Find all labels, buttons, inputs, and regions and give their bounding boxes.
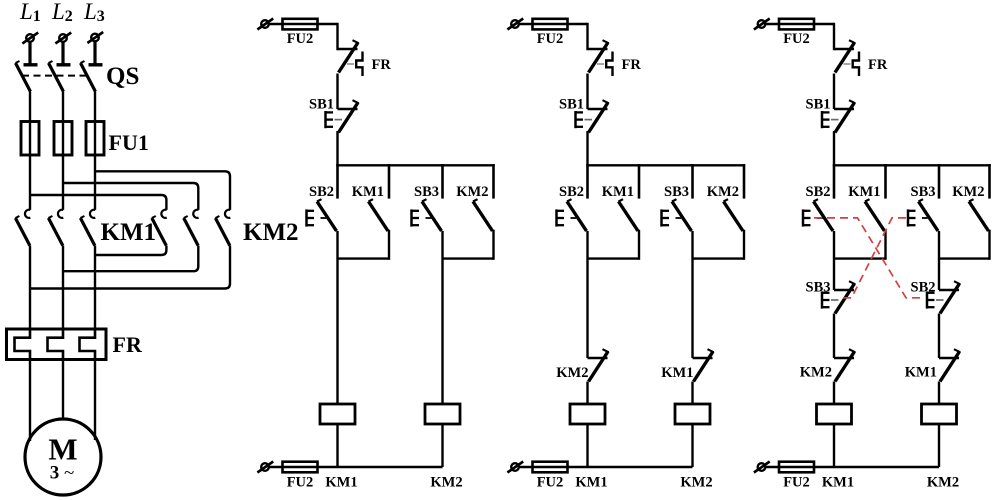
circuit3 label FU2 bottom xyxy=(783,474,810,490)
circuit3 label KM1 interlock xyxy=(905,365,937,381)
circuit2 fuse FU2 bottom xyxy=(533,462,568,473)
svg-text:KM1: KM1 xyxy=(848,184,880,200)
circuit2 contact KM2 aux (NO) xyxy=(724,199,744,231)
mechanical interlock link SB2 (red dashed) xyxy=(814,218,921,298)
circuit3 FR operator dashed link xyxy=(844,63,851,65)
circuit2 label KM1 interlock xyxy=(661,365,693,381)
svg-text:KM1: KM1 xyxy=(905,365,937,381)
circuit2 label FU2 top xyxy=(537,31,564,47)
circuit1 FR trip operator xyxy=(356,52,362,77)
circuit3 button contact SB3 (NC) xyxy=(834,281,855,313)
circuit3 fuse FU2 bottom xyxy=(779,462,814,473)
svg-text:SB3: SB3 xyxy=(911,184,936,200)
switch QS pole 3 fixed bar xyxy=(89,63,103,66)
wire phase 2 column to KM1 xyxy=(62,155,64,210)
wire QS to FU1 phase 3 xyxy=(94,92,96,122)
svg-text:KM2: KM2 xyxy=(243,219,299,246)
switch QS pole 2 blade xyxy=(49,61,64,92)
contactor KM1 main contact 3 terminal hook xyxy=(90,210,95,218)
thermal relay FR box xyxy=(7,329,107,360)
contactor KM2 main contact 2 terminal hook xyxy=(193,210,198,218)
circuit1 label coil KM2 xyxy=(430,474,462,490)
fuse FU1 phase 3 xyxy=(86,122,104,156)
switch QS linkage dashed line xyxy=(22,75,89,77)
circuit1 contact KM2 aux (NO) xyxy=(473,199,493,231)
contactor KM1 main contact 1 blade xyxy=(15,216,29,246)
circuit3 SB1 actuator dashed link xyxy=(831,119,839,121)
wire KM2 out 1 swap to phase 3 xyxy=(95,246,166,256)
circuit1 wire branch2 to coil xyxy=(441,231,443,404)
circuit3 SB2 actuator dashed link xyxy=(817,217,823,219)
circuit2 wire branch2 to KM1 interlock xyxy=(691,231,693,358)
circuit1 coil KM2 xyxy=(425,404,460,424)
terminal label L2 xyxy=(51,0,73,25)
wire L1 to QS xyxy=(28,43,31,65)
svg-text:FR: FR xyxy=(868,57,888,73)
circuit1 wire join KM2 aux xyxy=(443,257,494,259)
circuit2 start button SB3 (NO) xyxy=(672,199,692,231)
circuit2 label FU2 bottom xyxy=(537,474,564,490)
svg-text:KM1: KM1 xyxy=(325,474,357,490)
terminal L3 xyxy=(87,32,103,43)
svg-text:FU2: FU2 xyxy=(783,474,810,490)
circuit3 wire KM1 aux drop xyxy=(884,231,886,259)
label M xyxy=(48,432,77,467)
circuit3 wire join KM1 aux xyxy=(834,257,886,259)
circuit1 label FR xyxy=(372,57,392,73)
wire KM2 out 2 to phase 2 xyxy=(63,246,198,272)
wire KM1 out phase 1 xyxy=(29,246,31,330)
circuit3 contact KM1 aux (NO) xyxy=(865,199,885,231)
circuit1 label FU2 bottom xyxy=(287,474,314,490)
circuit1 wire coil KM1 to bottom bus xyxy=(336,424,338,467)
circuit2 wire down to FR contact xyxy=(586,24,588,49)
svg-text:KM1: KM1 xyxy=(101,219,157,246)
circuit1 stop button SB1 (NC) xyxy=(338,100,359,132)
circuit2 SB3 actuator dashed link xyxy=(676,217,682,219)
circuit3 label FU2 top xyxy=(783,31,810,47)
wire through fuse FU1-1 xyxy=(29,122,31,156)
circuit3 coil KM1 xyxy=(817,404,852,424)
circuit3 label KM2 interlock xyxy=(800,365,832,381)
circuit1 horizontal bus xyxy=(338,164,494,166)
circuit2 SB2 actuator xyxy=(557,209,565,226)
circuit3 source terminal bottom xyxy=(754,462,770,473)
circuit1 label FU2 top xyxy=(287,31,314,47)
circuit2 label coil KM2 xyxy=(680,474,712,490)
circuit2 SB1 actuator dashed link xyxy=(585,119,593,121)
circuit1 wire terminal to fuse FU2 top xyxy=(270,23,338,25)
circuit3 thermal contact FR (NC) xyxy=(834,40,855,72)
motor M circle xyxy=(25,419,101,495)
circuit2 interlock contact KM2 (NC) xyxy=(588,349,609,381)
fuse FU1 phase 1 xyxy=(21,122,39,156)
circuit3 SB1 actuator xyxy=(822,111,830,128)
svg-text:KM1: KM1 xyxy=(602,184,634,200)
circuit1 source terminal top xyxy=(257,19,273,30)
circuit2 interlock contact KM1 (NC) xyxy=(693,349,714,381)
circuit1 label SB2 xyxy=(309,184,334,200)
circuit3 interlock contact KM2 (NC) xyxy=(834,349,855,381)
circuit3 stub to contact SB2 xyxy=(833,165,836,197)
circuit2 label SB3 xyxy=(664,184,689,200)
label QS xyxy=(106,63,139,90)
circuit1 SB1 actuator dashed link xyxy=(335,119,343,121)
circuit2 label FR xyxy=(622,57,642,73)
circuit2 wire to coil KM2 xyxy=(691,382,693,405)
circuit3 button contact SB2 (NC) xyxy=(939,281,960,313)
circuit3 coil KM2 xyxy=(922,404,957,424)
circuit1 start button SB3 (NO) xyxy=(422,199,442,231)
circuit3 stop button SB1 (NC) xyxy=(834,100,855,132)
circuit3 SB3 NC actuator xyxy=(822,291,830,308)
circuit3 label SB1 xyxy=(806,97,831,113)
svg-text:FR: FR xyxy=(622,57,642,73)
circuit2 label coil KM1 xyxy=(575,474,607,490)
mechanical interlock link SB3 (red dashed) xyxy=(840,218,906,298)
wire KM2 out 3 swap to phase 1 xyxy=(30,246,230,289)
circuit1 label SB1 xyxy=(309,97,334,113)
svg-text:KM2: KM2 xyxy=(952,184,984,200)
circuit1 wire KM2 aux drop xyxy=(492,231,494,259)
circuit2 label SB2 xyxy=(559,184,584,200)
circuit2 contact KM1 aux (NO) xyxy=(619,199,639,231)
circuit2 wire join KM2 aux xyxy=(693,257,745,259)
circuit1 stub to contact SB2 xyxy=(336,165,339,197)
svg-text:KM2: KM2 xyxy=(680,474,712,490)
svg-text:KM2: KM2 xyxy=(800,365,832,381)
label KM1 xyxy=(101,219,157,246)
svg-text:KM2: KM2 xyxy=(707,184,739,200)
wire phase 1 column to KM1 xyxy=(29,155,31,210)
circuit3 wire terminal to fuse FU2 top xyxy=(766,23,834,25)
circuit3 start button SB3 (NO) xyxy=(919,199,939,231)
contactor KM1 main contact 1 terminal hook xyxy=(25,210,30,218)
circuit3 wire SB3 NC to KM2 interlock xyxy=(833,314,835,359)
circuit1 label coil KM1 xyxy=(325,474,357,490)
circuit1 SB2 actuator dashed link xyxy=(321,217,327,219)
wire branch phase 2 to KM2 xyxy=(63,183,198,210)
circuit3 SB3 NC actuator dashed link xyxy=(831,299,839,301)
svg-text:SB2: SB2 xyxy=(309,184,334,200)
circuit2 wire SB1 to bus xyxy=(586,131,588,165)
wire KM1 out phase 3 xyxy=(94,246,96,330)
circuit3 label coil KM2 xyxy=(927,474,959,490)
fuse FU1 phase 2 xyxy=(54,122,72,156)
wire branch phase 1 to KM2 xyxy=(30,195,166,210)
circuit3 label SB3 NC xyxy=(806,280,831,296)
circuit3 SB3 actuator dashed link xyxy=(922,217,928,219)
circuit3 wire bottom to fuse xyxy=(766,466,834,468)
circuit3 label SB2 xyxy=(806,184,831,200)
wire through fuse FU1-3 xyxy=(94,122,96,156)
svg-text:FU2: FU2 xyxy=(287,474,314,490)
circuit1 wire coil KM2 to bottom bus xyxy=(441,424,443,467)
circuit3 contact KM2 aux (NO) xyxy=(969,199,989,231)
terminal label L3 xyxy=(83,0,105,25)
circuit1 start button SB2 (NO) xyxy=(317,199,337,231)
svg-text:FU2: FU2 xyxy=(537,31,564,47)
label FU1 xyxy=(109,130,149,155)
svg-text:KM2: KM2 xyxy=(430,474,462,490)
circuit2 stub to contact SB3 xyxy=(691,165,694,197)
circuit2 label SB1 xyxy=(559,97,584,113)
circuit3 horizontal bus xyxy=(834,164,990,166)
circuit1 wire branch1 to coil xyxy=(336,231,338,404)
svg-text:3 ~: 3 ~ xyxy=(50,463,75,484)
contactor KM2 main contact 1 terminal hook xyxy=(161,210,166,218)
circuit1 SB3 actuator xyxy=(412,209,420,226)
circuit2 bottom bus xyxy=(588,466,693,468)
svg-text:SB2: SB2 xyxy=(559,184,584,200)
svg-text:FU2: FU2 xyxy=(537,474,564,490)
wire KM1 out phase 2 xyxy=(62,246,64,330)
svg-text:KM1: KM1 xyxy=(661,365,693,381)
circuit3 source terminal top xyxy=(754,19,770,30)
circuit3 SB2 NC actuator xyxy=(927,291,935,308)
circuit1 wire join KM1 aux xyxy=(338,257,390,259)
circuit2 FR operator dashed link xyxy=(597,63,604,65)
circuit1 stub to contact SB3 xyxy=(441,165,444,197)
circuit2 stop button SB1 (NC) xyxy=(588,100,609,132)
circuit3 wire down to FR contact xyxy=(833,24,835,49)
terminal label L1 xyxy=(19,0,41,25)
circuit1 FR operator dashed link xyxy=(347,63,354,65)
circuit1 coil KM1 xyxy=(320,404,355,424)
contactor KM2 main contact 3 blade xyxy=(215,216,229,246)
circuit3 SB3 actuator xyxy=(908,209,916,226)
svg-text:KM2: KM2 xyxy=(927,474,959,490)
circuit2 label KM1 aux xyxy=(602,184,634,200)
switch QS pole 1 blade xyxy=(16,61,31,92)
contactor KM1 main contact 2 blade xyxy=(48,216,62,246)
circuit1 label KM2 aux xyxy=(456,184,488,200)
circuit2 label KM2 aux xyxy=(707,184,739,200)
circuit3 wire to coil KM1 xyxy=(833,382,835,405)
circuit1 SB2 actuator xyxy=(307,209,315,226)
thermal relay FR heater 1 xyxy=(15,329,31,360)
svg-text:KM1: KM1 xyxy=(575,474,607,490)
label FR power xyxy=(113,332,143,357)
circuit2 wire terminal to fuse FU2 top xyxy=(520,23,588,25)
circuit3 wire join KM2 aux xyxy=(939,257,990,259)
circuit3 wire branch2 to SB2 NC xyxy=(938,231,940,290)
svg-text:FR: FR xyxy=(113,332,143,357)
circuit3 start button SB2 (NO) xyxy=(814,199,834,231)
circuit1 wire bottom to fuse xyxy=(270,466,338,468)
circuit3 label SB3 xyxy=(911,184,936,200)
contactor KM1 main contact 3 blade xyxy=(80,216,94,246)
circuit1 source terminal bottom xyxy=(257,462,273,473)
circuit2 wire KM2 aux drop xyxy=(743,231,745,259)
circuit3 label SB2 NC xyxy=(911,280,936,296)
circuit3 label coil KM1 xyxy=(822,474,854,490)
circuit3 FR trip operator xyxy=(853,52,859,77)
wire through fuse FU1-2 xyxy=(62,122,64,156)
circuit2 wire coil KM1 to bottom bus xyxy=(586,424,588,467)
circuit3 wire SB1 to bus xyxy=(833,131,835,165)
circuit3 label KM2 aux xyxy=(952,184,984,200)
circuit1 wire down to FR contact xyxy=(336,24,338,49)
circuit2 stub to contact KM2 xyxy=(743,165,746,197)
circuit3 wire branch1 to SB3 NC xyxy=(833,231,835,290)
terminal L1 xyxy=(22,33,38,44)
wire QS to FU1 phase 2 xyxy=(62,92,64,122)
svg-text:SB2: SB2 xyxy=(806,184,831,200)
circuit3 wire SB2 NC to KM1 interlock xyxy=(938,314,940,359)
svg-text:QS: QS xyxy=(106,63,139,90)
thermal relay FR heater 2 xyxy=(48,329,64,360)
circuit1 thermal contact FR (NC) xyxy=(338,40,359,72)
svg-text:FU1: FU1 xyxy=(109,130,149,155)
svg-text:KM2: KM2 xyxy=(556,365,588,381)
circuit2 stub to contact SB2 xyxy=(586,165,589,197)
svg-text:KM1: KM1 xyxy=(352,184,384,200)
svg-text:SB1: SB1 xyxy=(559,97,584,113)
circuit2 wire KM1 aux drop xyxy=(638,231,640,259)
circuit3 wire to coil KM2 xyxy=(938,382,940,405)
circuit1 SB1 actuator xyxy=(326,111,334,128)
circuit3 wire KM2 aux drop xyxy=(988,231,990,259)
svg-text:FU2: FU2 xyxy=(783,31,810,47)
circuit1 fuse FU2 top xyxy=(283,19,318,30)
circuit1 wire SB1 to bus xyxy=(336,131,338,165)
wire QS to FU1 phase 1 xyxy=(29,92,31,122)
svg-text:FU2: FU2 xyxy=(287,31,314,47)
circuit2 wire coil KM2 to bottom bus xyxy=(691,424,693,467)
circuit3 stub to contact KM2 xyxy=(988,165,991,197)
circuit2 source terminal top xyxy=(507,19,523,30)
circuit2 SB1 actuator xyxy=(576,111,584,128)
circuit2 SB2 actuator dashed link xyxy=(571,217,577,219)
contactor KM2 main contact 2 blade xyxy=(184,216,198,246)
wire FR to motor 3 xyxy=(94,360,96,441)
circuit3 SB2 actuator xyxy=(803,209,811,226)
circuit2 source terminal bottom xyxy=(507,462,523,473)
circuit1 label SB3 xyxy=(414,184,439,200)
svg-text:SB3: SB3 xyxy=(414,184,439,200)
wire FR to motor 2 xyxy=(62,360,64,420)
circuit3 wire FR to SB1 xyxy=(833,74,835,110)
circuit2 wire FR to SB1 xyxy=(586,74,588,110)
wire FR to motor 1 xyxy=(29,360,31,442)
circuit3 label FR xyxy=(868,57,888,73)
circuit3 label KM1 aux xyxy=(848,184,880,200)
circuit1 stub to contact KM1 xyxy=(388,165,391,197)
circuit1 SB3 actuator dashed link xyxy=(426,217,432,219)
circuit3 wire coil KM2 to bottom bus xyxy=(938,424,940,467)
circuit2 wire bottom to fuse xyxy=(520,466,588,468)
circuit2 thermal contact FR (NC) xyxy=(588,40,609,72)
svg-text:FR: FR xyxy=(372,57,392,73)
svg-text:SB1: SB1 xyxy=(806,97,831,113)
circuit2 SB3 actuator xyxy=(662,209,670,226)
switch QS pole 1 fixed bar xyxy=(24,63,38,66)
circuit2 label KM2 interlock xyxy=(556,365,588,381)
circuit1 wire KM1 aux drop xyxy=(388,231,390,259)
circuit1 wire FR to SB1 xyxy=(336,74,338,110)
circuit2 fuse FU2 top xyxy=(533,19,568,30)
contactor KM2 main contact 1 blade xyxy=(152,216,166,246)
switch QS pole 3 blade xyxy=(81,61,96,92)
svg-text:KM2: KM2 xyxy=(456,184,488,200)
svg-text:M: M xyxy=(48,432,77,467)
circuit3 SB2 NC actuator dashed link xyxy=(936,299,944,301)
wire phase 3 column to KM1 xyxy=(94,155,96,210)
circuit2 start button SB2 (NO) xyxy=(567,199,587,231)
circuit1 contact KM1 aux (NO) xyxy=(369,199,389,231)
wire L2 to QS xyxy=(61,43,64,65)
circuit1 label KM1 aux xyxy=(352,184,384,200)
circuit2 stub to contact KM1 xyxy=(638,165,641,197)
label 3~ xyxy=(50,463,75,484)
label KM2 xyxy=(243,219,299,246)
switch QS pole 2 fixed bar xyxy=(57,63,71,66)
contactor KM1 main contact 2 terminal hook xyxy=(58,210,63,218)
circuit2 coil KM2 xyxy=(675,404,710,424)
svg-text:SB1: SB1 xyxy=(309,97,334,113)
circuit1 bottom bus xyxy=(338,466,443,468)
circuit1 fuse FU2 bottom xyxy=(283,462,318,473)
svg-text:KM1: KM1 xyxy=(822,474,854,490)
circuit3 bottom bus xyxy=(834,466,939,468)
circuit3 stub to contact SB3 xyxy=(938,165,941,197)
wire L3 to QS xyxy=(93,42,96,65)
circuit2 coil KM1 xyxy=(570,404,605,424)
circuit3 interlock contact KM1 (NC) xyxy=(939,349,960,381)
thermal relay FR heater 3 xyxy=(80,329,96,360)
contactor KM2 main contact 3 terminal hook xyxy=(225,210,230,218)
wire branch phase 3 to KM2 xyxy=(95,171,230,210)
circuit2 wire branch1 to KM2 interlock xyxy=(586,231,588,358)
circuit3 stub to contact KM1 xyxy=(884,165,887,197)
circuit2 wire to coil KM1 xyxy=(586,382,588,405)
circuit2 wire join KM1 aux xyxy=(588,257,640,259)
circuit2 horizontal bus xyxy=(588,164,745,166)
circuit3 wire coil KM1 to bottom bus xyxy=(833,424,835,467)
circuit1 stub to contact KM2 xyxy=(492,165,495,197)
circuit2 FR trip operator xyxy=(606,52,612,77)
terminal L2 xyxy=(55,33,71,44)
circuit3 fuse FU2 top xyxy=(779,19,814,30)
svg-text:SB3: SB3 xyxy=(664,184,689,200)
